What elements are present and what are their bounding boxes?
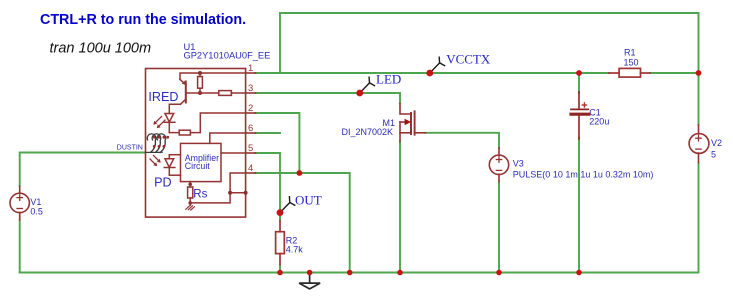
component U1 box: [146, 69, 246, 218]
photodiode PD: [164, 155, 175, 176]
wire V3 to rail: [498, 182, 500, 273]
wire pin6 vcc: [256, 132, 281, 134]
voltage source V1: [10, 186, 29, 220]
voltage source V3: [489, 148, 508, 182]
wire DUSTIN to V1: [20, 153, 146, 187]
wire PD cathode to amp: [169, 174, 180, 176]
wire VCCTX row pin1: [256, 72, 610, 74]
ground: [299, 273, 320, 289]
pin 5 stub: [246, 152, 256, 154]
wire pin2 to pin4 row: [256, 113, 300, 173]
node flag VCCTX: [430, 57, 445, 73]
mosfet M1: [400, 104, 426, 142]
pin 3 stub: [246, 92, 256, 94]
wire pin4 row to rail: [256, 173, 350, 273]
dust swirls DUSTIN symbol: [146, 134, 166, 153]
node flag LED: [360, 77, 375, 93]
capacitor C1: [571, 92, 589, 139]
node dot border: [244, 191, 248, 195]
pin 6 stub: [246, 132, 256, 134]
junction dot rail V3: [496, 270, 502, 276]
svg-text:1: 1: [248, 62, 253, 73]
internal signal ground: [186, 203, 195, 210]
junction dot C1 top: [576, 70, 582, 76]
node dot VCCTX: [426, 70, 433, 77]
wire V1 to rail: [19, 220, 21, 273]
node flag OUT: [280, 197, 295, 213]
junction dot rail C1: [576, 270, 582, 276]
resistor Rs: [188, 182, 193, 203]
svg-text:R1: R1: [624, 48, 636, 58]
svg-text:PD: PD: [154, 176, 172, 190]
PD incoming light arrows: [150, 156, 161, 167]
pin 1 stub: [246, 72, 256, 74]
resistor R1: [609, 68, 650, 77]
junction dot rail pin4: [347, 270, 353, 276]
svg-text:DI_2N7002K: DI_2N7002K: [342, 127, 394, 137]
svg-text:4: 4: [248, 162, 253, 173]
svg-text:3: 3: [248, 82, 253, 93]
wire C1 bottom: [578, 138, 580, 273]
svg-text:CTRL+R to run the simulation.: CTRL+R to run the simulation.: [40, 12, 246, 28]
svg-text:IRED: IRED: [148, 90, 178, 104]
wire pin5 out: [256, 153, 281, 221]
wire V2 branch: [698, 73, 700, 125]
wire bottom rail: [20, 272, 699, 274]
pin 2 stub: [246, 112, 256, 114]
svg-text:DUSTIN: DUSTIN: [117, 145, 143, 152]
node dot Rs bottom: [188, 201, 192, 205]
svg-text:0.5: 0.5: [30, 207, 43, 217]
svg-text:V1: V1: [30, 197, 41, 207]
svg-text:Circuit: Circuit: [185, 161, 210, 171]
wire Rc to pin2: [190, 113, 245, 133]
transistor Q1 (PNP IRED driver): [180, 79, 186, 104]
junction dot pin2 pin4: [297, 170, 303, 176]
svg-text:V2: V2: [711, 138, 722, 148]
svg-text:Rs: Rs: [193, 188, 207, 200]
node dot OUT: [277, 209, 284, 216]
wire Q1 collector to IRED: [169, 104, 180, 113]
junction dot rail gnd: [307, 270, 313, 276]
wire vcc to amp: [210, 133, 246, 143]
IRED diode: [164, 114, 175, 133]
wire R1 right to corner: [650, 72, 699, 74]
node dot Ra bottom: [198, 91, 202, 95]
node dot Rs top: [188, 183, 192, 187]
svg-text:GP2Y1010AU0F_EE: GP2Y1010AU0F_EE: [184, 51, 271, 61]
svg-text:220u: 220u: [589, 117, 609, 127]
wire R2 bottom: [279, 265, 281, 273]
svg-text:4.7k: 4.7k: [286, 245, 304, 255]
wire sgnd branch to border: [230, 192, 246, 194]
svg-text:V3: V3: [513, 159, 524, 169]
svg-text:VCCTX: VCCTX: [446, 51, 491, 66]
resistor R2: [276, 221, 285, 265]
wire M1 gate to V3: [426, 133, 500, 148]
pin 4 stub: [246, 172, 256, 174]
svg-text:tran 100u 100m: tran 100u 100m: [50, 41, 152, 57]
wire Q1 base row: [186, 92, 219, 94]
wire V2 to rail: [698, 163, 700, 273]
junction dot rail M1: [397, 270, 403, 276]
wire C1 top: [578, 73, 580, 93]
IRED emission arrows: [153, 117, 165, 129]
svg-text:PULSE(0 10 1m 1u 1u 0.32m 10m): PULSE(0 10 1m 1u 1u 0.32m 10m): [513, 170, 654, 180]
amplifier block U1a: [181, 143, 222, 181]
wire top rail: [280, 13, 699, 73]
wire Rs bottom to pin4: [190, 173, 245, 203]
svg-text:5: 5: [711, 149, 716, 159]
wire Rb to pin3: [231, 92, 245, 94]
resistor Rc (cathode series): [179, 130, 190, 135]
wire IRED cathode row: [169, 132, 179, 134]
node dot sgnd branch: [228, 191, 232, 195]
svg-text:150: 150: [624, 58, 639, 68]
node dot Ra top: [198, 71, 202, 75]
resistor Ra (vertical base pullup): [198, 73, 203, 93]
svg-text:6: 6: [248, 122, 253, 133]
junction dot rail R2: [277, 270, 283, 276]
svg-text:5: 5: [248, 142, 253, 153]
wire internal pin1 to Q1 emitter: [180, 73, 246, 79]
svg-text:OUT: OUT: [295, 193, 322, 208]
wire PD anode to amp: [169, 154, 180, 156]
junction dot R1 right: [696, 70, 702, 76]
dust dots: [153, 136, 169, 148]
wire M1 source to rail: [399, 142, 401, 273]
voltage source V2: [689, 125, 709, 163]
node dot LED: [356, 90, 363, 97]
svg-text:2: 2: [248, 102, 253, 113]
svg-text:LED: LED: [376, 72, 401, 87]
resistor Rb (base series): [219, 91, 232, 96]
wire LED row pin3: [256, 93, 401, 104]
wire amp out to pin5: [221, 152, 246, 154]
